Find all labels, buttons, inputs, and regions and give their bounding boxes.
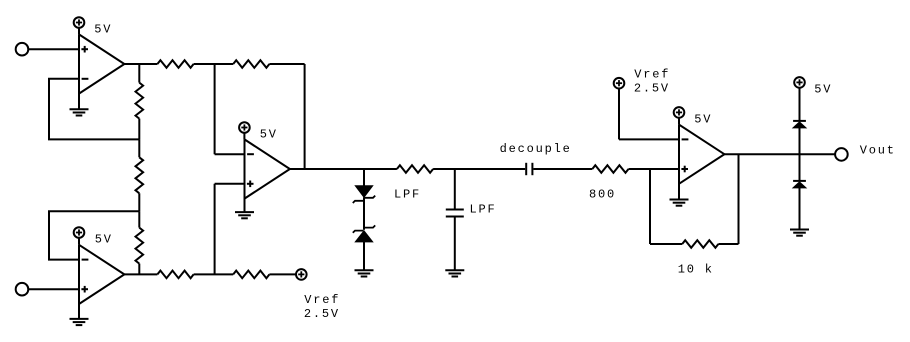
svg-text:Vout: Vout — [860, 143, 896, 157]
svg-text:2.5V: 2.5V — [304, 307, 340, 321]
svg-text:LPF: LPF — [470, 203, 497, 217]
svg-text:800: 800 — [589, 187, 616, 201]
svg-text:decouple: decouple — [500, 142, 572, 156]
svg-text:10 k: 10 k — [678, 263, 714, 277]
svg-text:Vref: Vref — [304, 293, 340, 307]
svg-text:5V: 5V — [814, 82, 832, 96]
svg-text:5V: 5V — [95, 232, 113, 246]
svg-text:5V: 5V — [94, 22, 112, 36]
svg-text:Vref: Vref — [634, 68, 670, 82]
svg-text:5V: 5V — [694, 112, 712, 126]
svg-text:5V: 5V — [260, 128, 278, 142]
svg-text:2.5V: 2.5V — [634, 82, 670, 96]
svg-text:LPF: LPF — [394, 187, 421, 201]
